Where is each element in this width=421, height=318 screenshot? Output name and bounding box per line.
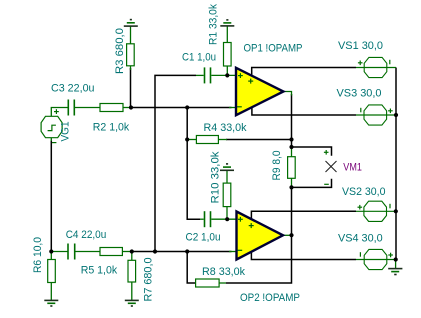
wire R3 bottom to main node — [130, 68, 132, 108]
svg-text:R8 33,0k: R8 33,0k — [202, 266, 245, 278]
svg-text:R3 680,0: R3 680,0 — [114, 28, 126, 74]
wire VM1 plus bracket — [292, 147, 332, 156]
generator VS4 — [356, 249, 396, 269]
svg-text:R5 1,0k: R5 1,0k — [81, 265, 118, 277]
wire OP2 V- to VS4 — [251, 249, 356, 260]
op-amp OP2 — [229, 212, 292, 260]
svg-text:VS3 30,0: VS3 30,0 — [337, 88, 382, 100]
resistor R9 — [288, 147, 296, 187]
svg-text:R7 680,0: R7 680,0 — [143, 258, 155, 302]
node R4 left junction — [185, 137, 189, 141]
generator VS1 — [356, 57, 396, 77]
svg-text:C2 1,0u: C2 1,0u — [186, 232, 221, 244]
capacitor C1 — [196, 67, 236, 83]
capacitor C4 — [51, 244, 100, 260]
node rail VG1/R6 junction — [49, 249, 53, 253]
wire main line to OP1 inverting input — [131, 107, 232, 109]
resistor R4 — [187, 136, 227, 144]
svg-text:VM1: VM1 — [343, 161, 362, 173]
svg-text:R2 1,0k: R2 1,0k — [93, 122, 130, 134]
generator VS3 — [356, 105, 396, 125]
resistor R6 — [48, 252, 56, 301]
svg-text:VS4 30,0: VS4 30,0 — [338, 233, 383, 245]
resistor R2 — [100, 104, 131, 112]
node R4 right junction — [289, 137, 293, 141]
ground above R1 (flipped) — [220, 20, 234, 43]
svg-text:VG1: VG1 — [60, 122, 72, 142]
ground above R10 (flipped) — [220, 164, 234, 183]
node feedback/main junction — [185, 105, 189, 109]
op-amp OP1 — [229, 68, 292, 115]
node R9 bottom junction — [289, 185, 293, 189]
capacitor C2 — [200, 211, 237, 227]
capacitor C3 — [51, 100, 100, 117]
ground at VS4 right — [388, 260, 402, 275]
svg-text:C1 1,0u: C1 1,0u — [182, 52, 216, 64]
node OP2 output junction — [289, 233, 293, 237]
svg-text:VS2 30,0: VS2 30,0 — [342, 186, 386, 198]
node OP1 + input junction — [225, 73, 229, 77]
resistor R8 — [196, 279, 226, 287]
svg-text:R4 33,0k: R4 33,0k — [204, 122, 247, 134]
node bus VS4 — [394, 257, 398, 261]
generator VS2 — [356, 201, 396, 221]
node rail R7 branch — [130, 249, 134, 253]
resistor R10 — [223, 183, 231, 219]
wire VG1 minus down to rail — [50, 141, 52, 252]
wire OP1 V- to VS3 — [252, 104, 356, 115]
svg-text:R10 33,0k: R10 33,0k — [210, 151, 222, 204]
generator VG1 — [41, 109, 62, 142]
wire R4 right to OP1 output vertical — [226, 139, 292, 141]
wire R8 branch from rail — [187, 252, 196, 284]
resistor R7 — [128, 252, 136, 301]
svg-text:OP2 !OPAMP: OP2 !OPAMP — [240, 292, 300, 304]
ground below R7 — [125, 300, 139, 306]
wire R9 bottom to OP2 output — [291, 187, 293, 235]
wire VM1 minus bracket — [292, 179, 332, 188]
resistor R5 — [100, 248, 132, 256]
svg-text:R6 10,0: R6 10,0 — [32, 237, 44, 273]
svg-text:OP1 !OPAMP: OP1 !OPAMP — [244, 43, 303, 55]
wire bottom rail to OP2 inverting input — [132, 251, 232, 253]
resistor R1 — [224, 43, 232, 76]
wire OP1 V+ to VS1 — [252, 68, 356, 78]
svg-text:C4 22,0u: C4 22,0u — [66, 229, 107, 241]
svg-text:R1 33,0k: R1 33,0k — [208, 4, 220, 45]
node bus VS3 — [394, 113, 398, 117]
svg-text:C3 22,0u: C3 22,0u — [51, 83, 95, 95]
svg-text:R9 8,0: R9 8,0 — [271, 151, 283, 181]
ground below R6 — [44, 300, 58, 306]
wire feedback vertical to C2 — [187, 108, 200, 220]
node rail C1 branch — [153, 249, 157, 253]
wire right supply bus — [395, 68, 397, 260]
wire OP1 output down to R9 — [291, 94, 293, 147]
node R2/R3 junction — [129, 105, 133, 109]
node R9 top junction — [289, 145, 293, 149]
node rail R8 branch — [185, 249, 189, 253]
ground above R3 (flipped) — [124, 20, 138, 44]
node OP2 + input junction — [225, 217, 229, 221]
wire OP2 output down to R8 — [226, 235, 292, 283]
wire OP2 V+ to VS2 — [251, 211, 356, 221]
resistor R3 — [127, 44, 135, 70]
node bus VS2 — [394, 209, 398, 213]
svg-text:VS1 30,0: VS1 30,0 — [338, 40, 383, 52]
wire C1 left branch — [155, 75, 196, 251]
voltmeter VM1 — [326, 161, 337, 172]
